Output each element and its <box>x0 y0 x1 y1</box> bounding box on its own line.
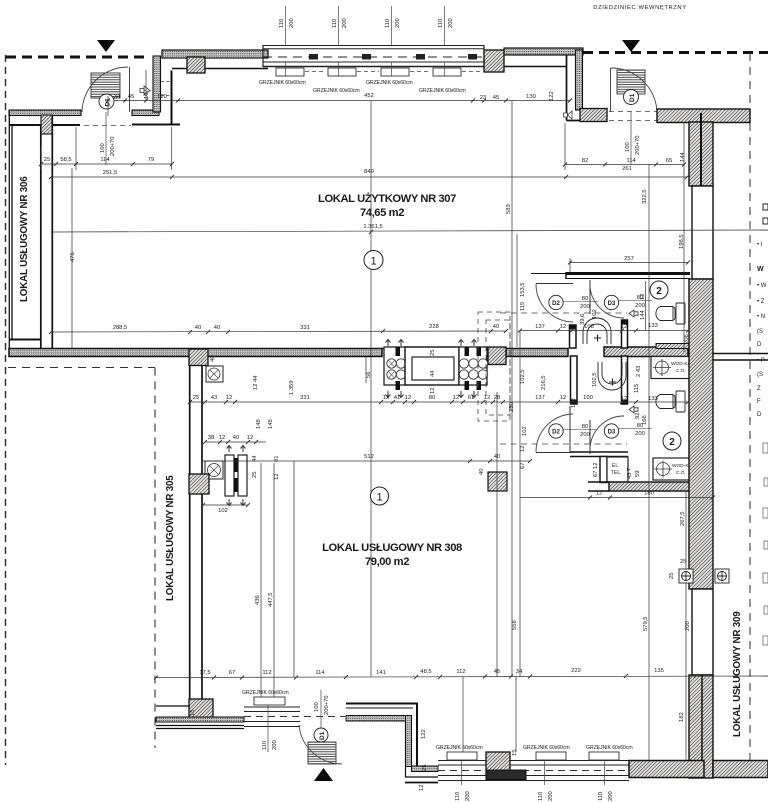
circled 2 upper <box>650 281 668 299</box>
svg-text:114: 114 <box>100 157 110 163</box>
vertical line 476 <box>71 168 73 348</box>
wall interior lines step corner <box>132 71 180 125</box>
svg-text:Z: Z <box>757 386 761 392</box>
radiator R4 top <box>433 68 461 76</box>
courtyard door centerline <box>630 112 632 164</box>
svg-text:206: 206 <box>684 334 690 344</box>
svg-text:102: 102 <box>571 398 577 408</box>
svg-text:59: 59 <box>635 471 641 477</box>
svg-text:80: 80 <box>582 424 588 430</box>
svg-text:C.O.: C.O. <box>676 470 686 476</box>
svg-text:230: 230 <box>509 402 515 412</box>
bolt square right <box>715 569 729 583</box>
svg-text:200: 200 <box>685 621 691 631</box>
svg-text:D: D <box>757 342 762 348</box>
svg-text:12: 12 <box>405 395 411 401</box>
svg-text:261: 261 <box>622 166 632 172</box>
party wall center line bottom <box>701 675 703 778</box>
bathroom chain y=330 <box>518 329 690 333</box>
door D1 top-left leaf <box>91 73 120 98</box>
svg-text:133: 133 <box>648 323 658 329</box>
svg-text:110: 110 <box>279 19 285 28</box>
svg-text:23: 23 <box>480 95 486 101</box>
vertical line x649 with 322,5 <box>648 164 650 497</box>
svg-text:25: 25 <box>193 395 199 401</box>
door D3 circle upper <box>604 295 618 309</box>
svg-text:200: 200 <box>395 18 401 28</box>
svg-text:D2: D2 <box>552 301 560 307</box>
svg-text:102: 102 <box>592 309 598 319</box>
svg-text:25: 25 <box>430 350 436 356</box>
wall line over shaft assembly <box>382 348 488 350</box>
svg-text:12: 12 <box>247 435 253 441</box>
svg-text:58,5: 58,5 <box>60 157 71 163</box>
wall interior line 306 top <box>9 124 80 126</box>
property boundary dashed line left <box>5 55 7 765</box>
svg-text:GRZEJNIK 60x60cm: GRZEJNIK 60x60cm <box>419 88 466 94</box>
property boundary dashed line top-left <box>6 56 150 59</box>
door D3 circle lower <box>604 424 618 438</box>
svg-text:82: 82 <box>582 158 588 164</box>
dashed line lower bath <box>500 443 627 445</box>
svg-text:148: 148 <box>256 419 262 429</box>
svg-text:137: 137 <box>535 324 545 330</box>
svg-text:200+70: 200+70 <box>324 695 330 715</box>
wall top segment right of column <box>504 48 583 55</box>
partition wall 306/307 line A <box>40 125 42 348</box>
svg-text:GRZEJNIK 60x60cm: GRZEJNIK 60x60cm <box>366 80 413 86</box>
svg-text:25: 25 <box>669 573 675 579</box>
svg-text:115: 115 <box>634 384 640 393</box>
entrance arrow top courtyard <box>622 40 640 52</box>
svg-text:79: 79 <box>148 157 154 163</box>
window bottom-left: lines <box>244 707 300 727</box>
svg-text:135: 135 <box>654 668 664 674</box>
open arrow marker near step <box>140 86 150 95</box>
door D1 top-left threshold dash <box>84 125 131 127</box>
svg-text:130: 130 <box>526 94 536 100</box>
svg-text:D1: D1 <box>629 93 636 102</box>
svg-text:267,5: 267,5 <box>680 511 686 526</box>
svg-text:• Z: • Z <box>757 299 765 305</box>
svg-text:102: 102 <box>218 508 228 514</box>
svg-text:44: 44 <box>430 370 436 377</box>
svg-text:LOKAL USŁUGOWY NR 309: LOKAL USŁUGOWY NR 309 <box>732 611 743 737</box>
svg-text:34: 34 <box>114 94 121 100</box>
svg-text:12: 12 <box>430 388 436 394</box>
svg-text:17,5: 17,5 <box>199 670 210 676</box>
svg-text:LOKAL USŁUGOWY NR 308: LOKAL USŁUGOWY NR 308 <box>322 542 462 554</box>
vertical line x517 with 153,5 115 <box>516 234 518 347</box>
dim line 12/144 bathroom <box>645 281 647 330</box>
vertical refs bottom <box>462 677 464 752</box>
open arrow marker courtyard door <box>564 111 573 119</box>
chain 512 40 y=460 <box>203 459 532 463</box>
bathroom top wall <box>566 272 690 275</box>
toilet lower <box>656 391 685 412</box>
courtyard door D1 swing arc <box>611 68 657 111</box>
door D1 top-left circle label <box>99 94 114 109</box>
wall vertical up to top band <box>153 56 161 112</box>
svg-text:110: 110 <box>385 19 391 28</box>
svg-text:GRZEJNIK 60x60cm: GRZEJNIK 60x60cm <box>586 745 633 751</box>
door header line left of bathroom wall <box>531 273 566 275</box>
svg-text:48,5: 48,5 <box>420 669 431 675</box>
svg-text:61: 61 <box>468 395 474 401</box>
svg-text:12 44: 12 44 <box>253 375 259 390</box>
svg-text:D: D <box>757 412 762 418</box>
svg-text:GRZEJNIK 60x60cm: GRZEJNIK 60x60cm <box>259 80 306 86</box>
svg-text:107: 107 <box>144 89 150 99</box>
svg-text:133: 133 <box>648 396 658 402</box>
svg-text:F: F <box>757 399 761 405</box>
dashed line upper bath <box>500 312 627 314</box>
WOD-KAN box lower <box>653 458 696 480</box>
svg-text:200: 200 <box>635 431 645 437</box>
door D1 bottom arc <box>299 725 342 764</box>
door D2 circle upper <box>549 295 563 309</box>
svg-text:110: 110 <box>598 792 604 801</box>
svg-text:45: 45 <box>493 95 499 101</box>
property boundary dashed line right <box>749 53 751 770</box>
svg-text:40: 40 <box>210 356 216 362</box>
door D2 upper arc <box>536 284 573 322</box>
wall vertical step down (left of courtyard door) <box>576 50 583 110</box>
window band top: dashed center line <box>263 56 484 58</box>
radiator bottom-left <box>254 697 285 705</box>
door D1 top-left swing arc <box>82 67 128 112</box>
svg-text:C.O.: C.O. <box>676 368 686 374</box>
svg-text:40: 40 <box>479 469 485 475</box>
open arrow lower bath <box>629 406 638 413</box>
courtyard door D1 leaf <box>617 70 645 94</box>
radiator bottom-left centerline + labels <box>267 705 269 752</box>
svg-text:12: 12 <box>274 474 280 480</box>
window bottom-left dashes <box>244 716 345 718</box>
door D1 bottom centerline <box>320 690 322 728</box>
party wall right: open part <box>692 186 713 279</box>
circled 1 lower <box>371 487 389 505</box>
svg-text:137: 137 <box>535 395 545 401</box>
svg-text:(S: (S <box>757 372 763 378</box>
shaft assembly center: right block <box>459 347 488 390</box>
dimension line 849 / 251.5 / 261 <box>49 175 689 179</box>
sink upper <box>583 318 611 344</box>
svg-text:39,6: 39,6 <box>580 314 586 325</box>
svg-text:2: 2 <box>656 286 662 297</box>
svg-text:102: 102 <box>522 426 528 436</box>
chain y=401 full <box>188 400 690 404</box>
shaft vent arrows up <box>386 340 477 347</box>
svg-text:583: 583 <box>506 204 512 214</box>
svg-text:102,5: 102,5 <box>520 369 526 384</box>
partition wall 305/308 line A <box>189 365 191 700</box>
svg-text:115: 115 <box>520 302 526 311</box>
svg-text:114: 114 <box>315 670 325 676</box>
chain 38 12 40 12 y=441 <box>203 440 266 444</box>
main dividing wall 307/308 <box>9 349 382 357</box>
svg-text:114: 114 <box>626 158 636 164</box>
svg-text:182: 182 <box>679 712 685 722</box>
plumbing stub lower-left <box>571 356 578 404</box>
svg-text:452: 452 <box>364 93 374 99</box>
shaft assembly center: duct rect <box>405 347 459 385</box>
shaft vent arrows down <box>386 391 477 398</box>
svg-text:100: 100 <box>625 142 631 152</box>
property boundary dashed line top-right <box>583 51 768 54</box>
wall stub left of courtyard door D1 <box>580 109 607 122</box>
svg-text:12: 12 <box>520 446 526 452</box>
svg-text:436: 436 <box>255 595 261 605</box>
reference line x516 <box>515 677 517 752</box>
svg-text:D1: D1 <box>319 731 326 740</box>
svg-text:251,5: 251,5 <box>103 170 118 176</box>
wall 309 horizontal at right <box>713 354 768 361</box>
svg-text:331: 331 <box>300 325 310 331</box>
door D2 lower arc <box>536 414 573 452</box>
svg-text:141: 141 <box>376 670 386 676</box>
verticals 436 447,5 <box>260 463 262 697</box>
chain y=331 <box>49 329 508 334</box>
bottom wall 306 interior line <box>9 339 41 341</box>
svg-text:12: 12 <box>621 324 627 330</box>
svg-text:40: 40 <box>195 325 201 331</box>
svg-text:GRZEJNIK 60x60cm: GRZEJNIK 60x60cm <box>242 690 289 696</box>
shaft assembly center: left block <box>384 347 407 390</box>
svg-text:GRZEJNIK 60x60cm: GRZEJNIK 60x60cm <box>313 88 360 94</box>
door jamb line lower bath <box>569 406 571 452</box>
svg-text:41: 41 <box>394 395 400 401</box>
svg-text:200: 200 <box>580 432 590 438</box>
svg-text:40: 40 <box>214 325 220 331</box>
courtyard door D1 jamb line <box>610 68 612 112</box>
vertical line x371 <box>370 101 372 677</box>
svg-text:849: 849 <box>364 169 374 175</box>
svg-text:25: 25 <box>680 559 686 565</box>
radiator bottom B3 <box>589 752 619 760</box>
svg-text:558: 558 <box>512 620 518 630</box>
circled 2 lower <box>663 432 681 450</box>
svg-text:12: 12 <box>453 395 459 401</box>
svg-text:200+70: 200+70 <box>110 136 116 156</box>
svg-text:198,5: 198,5 <box>679 234 685 249</box>
small shaft box top 305 <box>206 366 223 382</box>
wall sill dashes on vertical <box>161 82 171 96</box>
svg-text:80: 80 <box>582 296 588 302</box>
svg-text:144: 144 <box>680 152 686 162</box>
svg-text:56: 56 <box>366 372 372 378</box>
hatched column 305 mid <box>189 474 209 494</box>
svg-text:120: 120 <box>157 94 167 100</box>
svg-text:200: 200 <box>342 18 348 28</box>
wall top of 306 (left of door D1) <box>9 110 81 116</box>
svg-text:67: 67 <box>229 670 235 676</box>
svg-text:216,5: 216,5 <box>541 375 547 390</box>
bolt square left <box>679 569 693 583</box>
svg-text:12: 12 <box>560 395 566 401</box>
door D2 lower leaf <box>536 452 573 454</box>
vertical line x684 with 198,5 <box>683 122 685 352</box>
open arrow upper bath <box>629 310 638 317</box>
svg-text:112: 112 <box>456 669 465 675</box>
svg-text:110: 110 <box>332 19 338 28</box>
window band ends <box>262 45 264 67</box>
svg-text:43: 43 <box>211 395 217 401</box>
svg-text:148: 148 <box>268 419 274 429</box>
window band bottom dashes <box>438 770 629 772</box>
bathroom bottom wall hatched <box>609 482 690 491</box>
svg-text:79,00 m2: 79,00 m2 <box>365 556 409 568</box>
svg-text:200+70: 200+70 <box>635 135 641 155</box>
chain 102 <box>201 503 250 507</box>
column at top of partition <box>41 115 52 134</box>
step wall right of bottom door: top leg <box>346 704 417 766</box>
svg-text:100: 100 <box>100 143 106 153</box>
svg-text:122: 122 <box>421 729 427 739</box>
svg-text:DZIEDZINIEC WEWNĘTRZNY: DZIEDZINIEC WEWNĘTRZNY <box>593 5 686 11</box>
svg-text:200: 200 <box>272 740 278 750</box>
column on main wall left <box>189 349 208 366</box>
svg-text:288,5: 288,5 <box>113 325 128 331</box>
door D2 upper leaf <box>536 283 573 285</box>
party wall right: open part lower <box>692 589 713 675</box>
partition wall 305/308 line B <box>201 365 203 700</box>
svg-text:12: 12 <box>640 294 646 300</box>
svg-text:200: 200 <box>548 791 554 801</box>
main wall hatched right part <box>604 347 688 357</box>
window mullion marks <box>309 54 318 60</box>
svg-text:LOKAL USŁUGOWY NR 306: LOKAL USŁUGOWY NR 306 <box>19 176 30 302</box>
svg-text:200: 200 <box>580 304 590 310</box>
svg-text:GRZEJNIK 60x60cm: GRZEJNIK 60x60cm <box>523 745 570 751</box>
window band top: inner lines <box>263 61 484 63</box>
party wall right: long hatched part <box>689 279 713 589</box>
window band bottom right: lines <box>438 761 629 781</box>
svg-text:1.361,5: 1.361,5 <box>363 224 382 230</box>
svg-text:43 7: 43 7 <box>627 468 633 479</box>
shaft assembly 305 mid: twin duct <box>225 446 247 506</box>
toilet upper <box>656 303 685 324</box>
svg-text:92: 92 <box>635 413 641 419</box>
chain 257 bathroom top <box>568 258 690 273</box>
svg-text:12: 12 <box>596 491 602 497</box>
svg-text:228: 228 <box>429 324 439 330</box>
party wall center line top <box>700 113 702 186</box>
svg-text:579,5: 579,5 <box>643 616 649 631</box>
svg-text:12: 12 <box>419 785 425 791</box>
svg-text:12: 12 <box>621 396 627 402</box>
hatched column bottom band <box>486 752 510 776</box>
svg-text:476: 476 <box>70 252 76 262</box>
door D1 bottom circle <box>314 728 328 742</box>
window band top: outer lines <box>263 45 484 47</box>
bottom wall 305 segment <box>156 705 190 707</box>
door D1 bottom leaf <box>308 742 336 764</box>
legend boxes right edge <box>763 443 768 645</box>
plumbing stub upper-right <box>622 320 628 348</box>
radiator bottom B1 <box>447 752 477 760</box>
svg-text:D3: D3 <box>608 430 616 436</box>
svg-text:166: 166 <box>642 415 648 425</box>
WOD-KAN box upper <box>651 357 695 379</box>
svg-text:80: 80 <box>429 395 435 401</box>
svg-text:40: 40 <box>233 435 239 441</box>
radiator R3 top <box>381 68 409 76</box>
svg-text:1: 1 <box>376 492 382 504</box>
svg-text:12: 12 <box>560 324 566 330</box>
svg-text:25: 25 <box>44 157 50 163</box>
dimension chain top y=100 <box>106 70 572 116</box>
svg-text:• P: • P <box>757 358 765 364</box>
vertical 267,5 200 <box>685 491 687 569</box>
svg-text:144: 144 <box>640 310 646 320</box>
door D2 circle lower <box>549 424 563 438</box>
svg-text:38: 38 <box>208 435 214 441</box>
svg-text:12: 12 <box>484 395 490 401</box>
step wall bottom leg <box>412 766 439 772</box>
svg-text:25: 25 <box>422 765 428 771</box>
svg-text:D2: D2 <box>552 430 560 436</box>
svg-text:15: 15 <box>512 750 518 756</box>
column right of window band <box>484 50 504 72</box>
svg-text:200: 200 <box>289 18 295 28</box>
column on top wall <box>187 57 205 73</box>
svg-text:2 43: 2 43 <box>636 366 642 377</box>
svg-text:112: 112 <box>262 670 271 676</box>
svg-text:67: 67 <box>520 463 526 469</box>
entrance arrow top-left <box>97 40 115 52</box>
svg-text:EL.: EL. <box>612 463 620 469</box>
svg-text:25: 25 <box>252 472 258 478</box>
column on main wall right of shaft <box>488 347 506 365</box>
svg-text:12: 12 <box>226 395 232 401</box>
svg-text:45: 45 <box>128 94 134 100</box>
column bottom of 305/308 partition <box>189 699 213 720</box>
shaft assembly 305 mid: X box <box>205 461 223 479</box>
dimension line 1361,5 <box>51 230 768 232</box>
radiator bottom B2 <box>536 752 566 760</box>
svg-text:200: 200 <box>635 303 645 309</box>
bottom wall far right <box>713 761 768 778</box>
svg-text:12: 12 <box>219 435 225 441</box>
svg-text:12: 12 <box>383 395 389 401</box>
svg-text:LOKAL USŁUGOWY NR 305: LOKAL USŁUGOWY NR 305 <box>165 475 176 601</box>
vertical line x512 with 583 558 <box>511 101 513 677</box>
svg-text:100: 100 <box>583 395 593 401</box>
small hatched column at 512 line <box>488 472 507 491</box>
svg-text:2: 2 <box>669 437 675 448</box>
door D3 upper arc <box>590 284 624 318</box>
entrance arrow bottom <box>314 768 333 781</box>
wall top segment left of window band <box>162 50 268 58</box>
chain bottom y=677 <box>154 674 768 680</box>
radiator centerlines with 110/200 labels <box>286 6 445 76</box>
svg-text:15: 15 <box>190 710 196 716</box>
svg-text:110: 110 <box>455 792 461 801</box>
svg-text:TEL.: TEL. <box>611 470 622 476</box>
svg-text:110: 110 <box>538 792 544 801</box>
courtyard door D1 threshold dashes <box>609 112 657 121</box>
svg-text:222: 222 <box>571 668 581 674</box>
svg-text:LOKAL UŻYTKOWY NR 307: LOKAL UŻYTKOWY NR 307 <box>318 192 456 205</box>
svg-text:200: 200 <box>608 791 614 801</box>
svg-text:• W: • W <box>757 283 767 289</box>
boundary dashed 305 right <box>154 368 156 749</box>
wall right of courtyard door to boundary <box>657 109 750 123</box>
svg-text:512: 512 <box>364 454 374 460</box>
boundary dashed 305 top <box>8 367 155 369</box>
radiator R2 top <box>328 68 356 76</box>
